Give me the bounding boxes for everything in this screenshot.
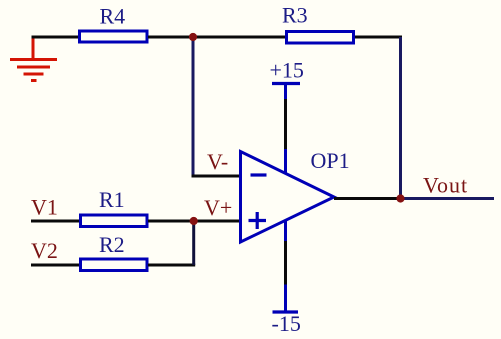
- op-amp OP1: [241, 152, 335, 243]
- wire V2 to R2: [31, 264, 80, 267]
- wire riser R2 to node B: [192, 221, 195, 265]
- power -15 pin: [284, 285, 287, 313]
- wire R4 to node A: [148, 36, 193, 39]
- wire R2 to riser: [148, 264, 195, 267]
- svg-text:V2: V2: [31, 238, 58, 263]
- svg-text:R3: R3: [282, 3, 308, 28]
- svg-text:+15: +15: [270, 58, 304, 83]
- svg-text:V+: V+: [204, 195, 232, 220]
- svg-text:R1: R1: [99, 187, 125, 212]
- ground: [10, 36, 57, 81]
- op-amp V- supply pin: [284, 221, 287, 242]
- power +15 pin: [284, 84, 287, 100]
- wire V1 to R1: [31, 220, 80, 223]
- wire ground to R4: [32, 36, 80, 39]
- wire inverting vertical from node A: [192, 37, 195, 176]
- svg-text:-15: -15: [272, 311, 301, 336]
- wire feedback vertical: [399, 37, 402, 199]
- power +15 bar: [272, 82, 300, 85]
- wire R1 to node B: [148, 220, 194, 223]
- svg-text:V-: V-: [207, 149, 228, 174]
- wire node B to op-amp: [194, 220, 241, 223]
- power -15 bar: [273, 310, 299, 313]
- wire +15 to op-amp: [284, 99, 287, 149]
- wire output: [334, 197, 399, 200]
- resistor R4: [80, 31, 148, 42]
- resistor R1: [81, 215, 148, 227]
- resistor R2: [81, 259, 148, 271]
- wire node A to R3: [193, 36, 286, 39]
- wire inverting horizontal to op-amp: [192, 175, 241, 178]
- wire output right: [399, 197, 494, 200]
- op-amp plus input mark: [249, 212, 267, 229]
- svg-text:R4: R4: [100, 4, 126, 29]
- node B: [190, 217, 198, 225]
- node output: [396, 194, 404, 202]
- wire R3 to corner: [355, 36, 402, 39]
- svg-text:OP1: OP1: [311, 148, 350, 173]
- op-amp minus input mark: [251, 173, 267, 176]
- svg-text:Vout: Vout: [423, 173, 468, 198]
- op-amp V+ supply pin: [284, 149, 287, 174]
- node A: [189, 33, 197, 41]
- svg-text:V1: V1: [31, 195, 58, 220]
- resistor R3: [287, 32, 354, 44]
- svg-text:R2: R2: [99, 232, 125, 257]
- wire op-amp to -15: [284, 241, 287, 285]
